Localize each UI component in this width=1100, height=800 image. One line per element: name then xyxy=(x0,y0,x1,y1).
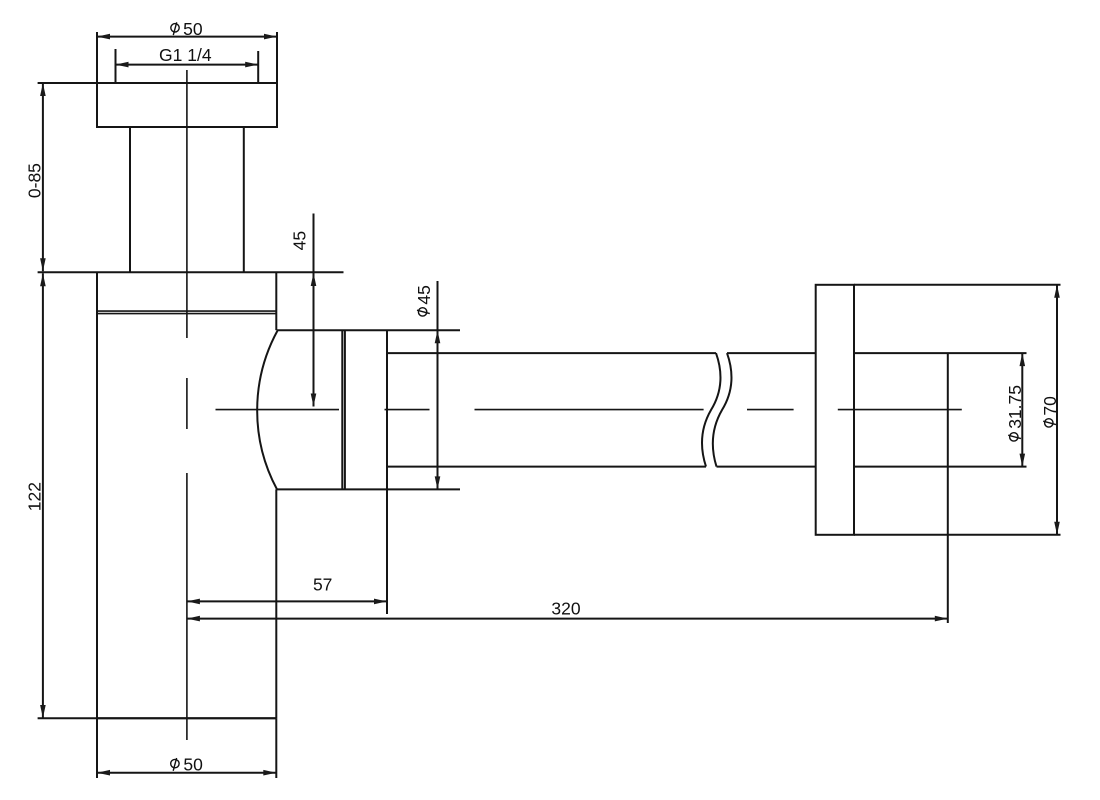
svg-text:50: 50 xyxy=(183,19,203,39)
svg-text:45: 45 xyxy=(414,285,434,304)
svg-text:G1 1/4: G1 1/4 xyxy=(159,45,212,65)
svg-text:31.75: 31.75 xyxy=(1005,385,1025,429)
svg-text:70: 70 xyxy=(1040,396,1060,416)
svg-text:122: 122 xyxy=(25,482,45,511)
svg-text:57: 57 xyxy=(313,575,332,595)
svg-text:50: 50 xyxy=(183,755,203,775)
svg-text:320: 320 xyxy=(551,598,580,618)
svg-text:0-85: 0-85 xyxy=(25,163,45,198)
svg-text:45: 45 xyxy=(289,231,309,250)
